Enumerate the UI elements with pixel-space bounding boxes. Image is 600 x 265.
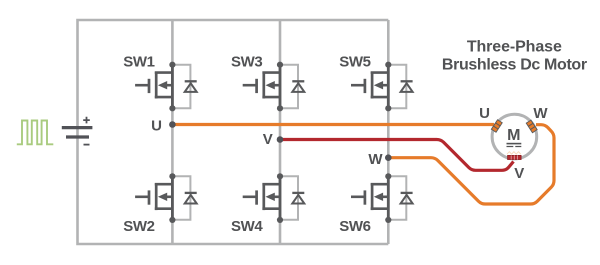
svg-text:SW2: SW2 [123, 218, 154, 235]
svg-text:SW6: SW6 [339, 218, 370, 235]
svg-text:Three-Phase: Three-Phase [467, 39, 562, 56]
svg-text:W: W [533, 105, 548, 122]
svg-text:V: V [514, 165, 524, 182]
svg-text:SW1: SW1 [123, 54, 154, 71]
svg-text:SW5: SW5 [339, 54, 370, 71]
svg-text:M: M [507, 127, 520, 144]
svg-text:SW4: SW4 [231, 218, 263, 235]
svg-text:SW3: SW3 [231, 54, 262, 71]
svg-text:W: W [368, 151, 383, 168]
svg-text:U: U [151, 117, 162, 134]
svg-text:U: U [479, 105, 490, 122]
svg-text:V: V [263, 131, 273, 148]
svg-text:Brushless Dc Motor: Brushless Dc Motor [442, 57, 587, 74]
